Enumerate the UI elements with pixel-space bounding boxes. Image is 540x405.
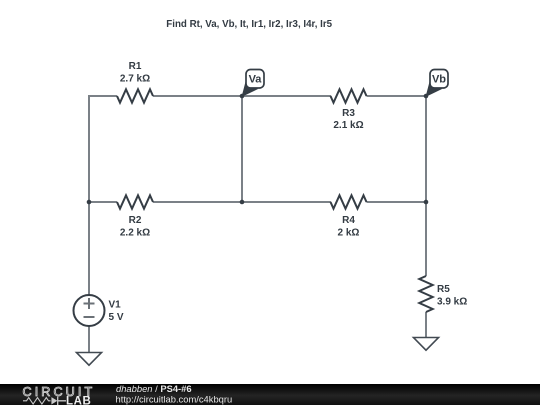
svg-text:Find Rt, Va, Vb, It, Ir1, Ir2,: Find Rt, Va, Vb, It, Ir1, Ir2, Ir3, I4r,…	[166, 19, 332, 30]
wire top-left horizontal	[89, 95, 117, 97]
wire middle-right horizontal	[367, 201, 427, 203]
wire V1 to ground	[88, 326, 90, 352]
resistor R3	[331, 89, 367, 131]
svg-text:dhabben / PS4-#6: dhabben / PS4-#6	[116, 383, 192, 394]
wire right vertical lower	[425, 202, 427, 276]
junction dot middle	[240, 200, 245, 205]
resistor R1	[117, 61, 153, 103]
junction dot left-middle	[87, 200, 92, 205]
svg-text:Va: Va	[249, 74, 263, 86]
wire middle-left horizontal	[89, 201, 117, 203]
footer bar	[0, 384, 540, 405]
ground (under R5)	[414, 338, 439, 351]
svg-text:5 V: 5 V	[109, 312, 124, 323]
svg-text:Vb: Vb	[432, 74, 446, 86]
svg-text:LAB: LAB	[66, 396, 91, 405]
junction dot node Vb	[424, 94, 429, 99]
junction dot right-middle	[424, 200, 429, 205]
svg-text:R2: R2	[129, 215, 142, 226]
svg-text:3.9 kΩ: 3.9 kΩ	[437, 297, 467, 308]
svg-text:2.7 kΩ: 2.7 kΩ	[120, 74, 150, 85]
svg-text:R4: R4	[342, 215, 355, 226]
wire middle horizontal	[153, 201, 331, 203]
svg-text:http://circuitlab.com/c4kbqru: http://circuitlab.com/c4kbqru	[116, 393, 233, 404]
svg-text:R1: R1	[129, 61, 142, 72]
wire left vertical upper	[88, 95, 90, 202]
junction dot node Va	[240, 94, 245, 99]
resistor R5	[419, 276, 467, 312]
resistor R2	[117, 195, 153, 238]
node Vb tag	[426, 70, 449, 98]
wire top middle horizontal	[153, 95, 331, 97]
svg-text:V1: V1	[109, 300, 122, 311]
resistor R4	[331, 195, 367, 238]
wire top right horizontal	[367, 95, 427, 97]
wire left vertical lower	[88, 202, 90, 295]
svg-text:2.1 kΩ: 2.1 kΩ	[333, 120, 363, 131]
CircuitLab logo	[23, 385, 96, 405]
svg-text:2 kΩ: 2 kΩ	[338, 228, 360, 239]
svg-text:R5: R5	[437, 284, 450, 295]
wire R5 to ground	[425, 312, 427, 337]
wire node A vertical	[241, 96, 243, 202]
voltage source V1	[74, 295, 124, 326]
svg-text:2.2 kΩ: 2.2 kΩ	[120, 228, 150, 239]
ground (under V1)	[77, 353, 102, 366]
wire right vertical upper	[425, 96, 427, 202]
node Va tag	[242, 70, 265, 98]
svg-text:R3: R3	[342, 108, 355, 119]
